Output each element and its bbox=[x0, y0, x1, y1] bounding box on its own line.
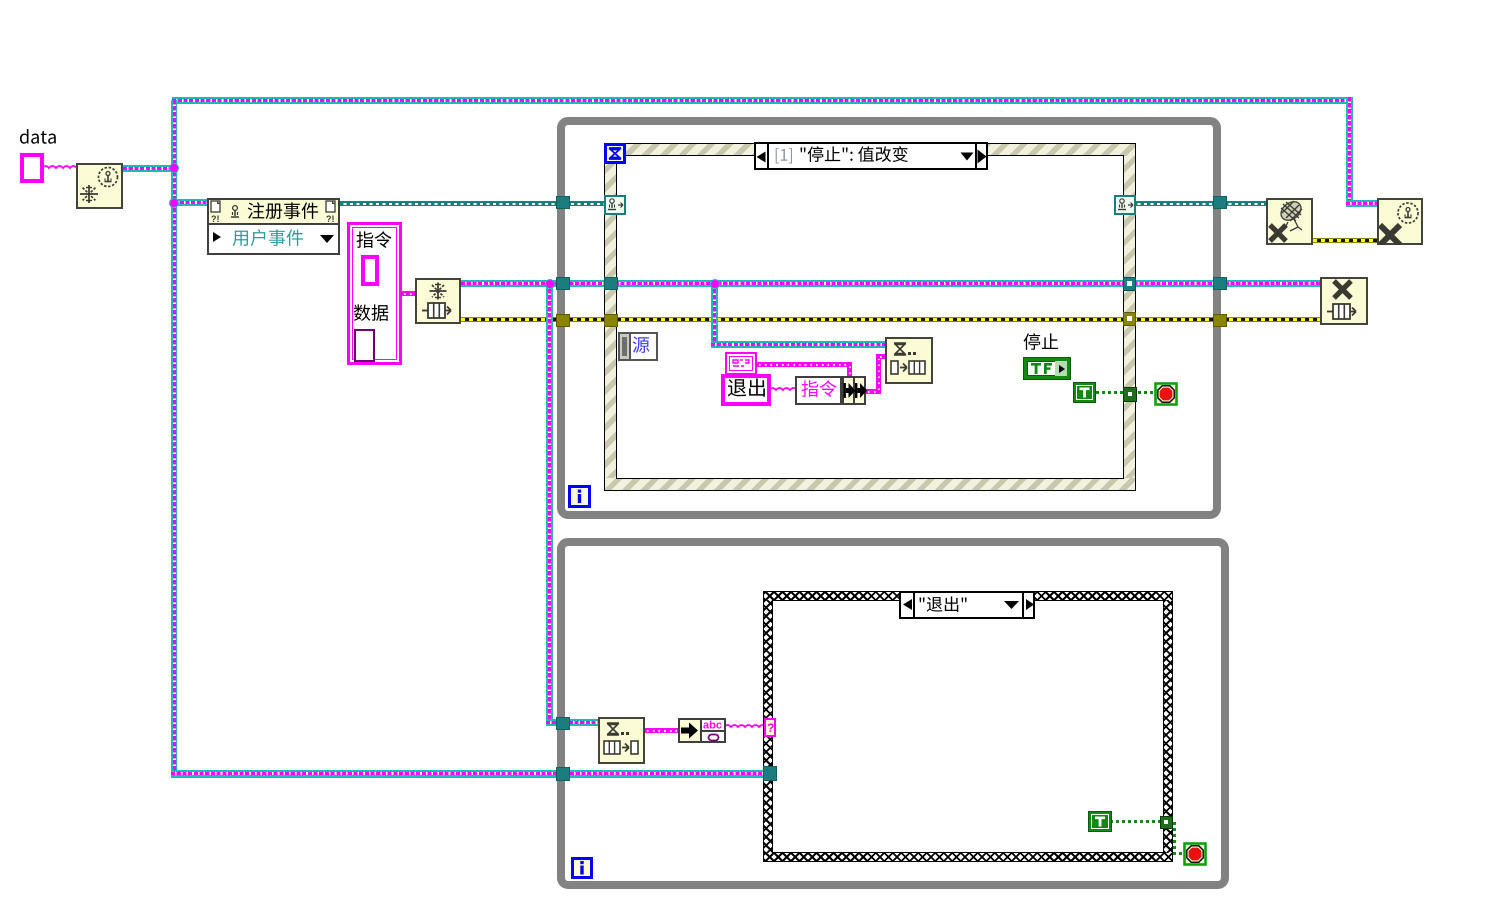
wire: Create User Event output bbox=[123, 165, 178, 172]
wire: True constant to loop condition (top) bbox=[1096, 391, 1158, 394]
loop1 right event-reg tunnel bbox=[1213, 196, 1227, 209]
inner terminal 数据 bbox=[354, 329, 375, 362]
bundle by name node 指令 bbox=[795, 376, 842, 405]
node: Release Queue bbox=[1320, 277, 1368, 325]
case structure border (checkered) bbox=[764, 592, 1172, 600]
loop iteration terminal [i] (top) bbox=[568, 485, 591, 508]
node: Destroy User Event bbox=[1377, 198, 1423, 245]
event structure right error pass-through tunnel bbox=[1123, 312, 1136, 326]
loop condition stop terminal (bottom) bbox=[1183, 842, 1207, 866]
wire: queue refnum drop to lower loop bbox=[546, 283, 553, 723]
loop1 left event-reg tunnel bbox=[556, 196, 570, 209]
wire: True constant to loop condition (bottom) bbox=[1110, 820, 1165, 823]
case right boolean tunnel bbox=[1160, 816, 1173, 829]
event structure left queue tunnel bbox=[604, 277, 618, 290]
wire: string to case selector bbox=[724, 724, 766, 730]
wire: event registration refnum (register to event structure) bbox=[340, 201, 608, 206]
register node event source row bbox=[212, 231, 222, 243]
True constant (bottom) bbox=[1088, 811, 1112, 832]
variant to data node bbox=[678, 718, 702, 743]
node: Create User Event bbox=[76, 163, 123, 209]
loop condition stop terminal (top) bbox=[1154, 382, 1178, 406]
node: Register For Events bbox=[207, 198, 340, 255]
loop iteration terminal [i] (bottom) bbox=[571, 857, 593, 879]
wire: error cluster main horizontal bbox=[461, 317, 1321, 322]
loop1 right error tunnel bbox=[1213, 314, 1227, 327]
wire: branch to Register For Events bbox=[174, 199, 208, 206]
wire: user event refnum top rail bbox=[172, 97, 1353, 104]
case selector terminal ? bbox=[764, 718, 776, 737]
wire: queue refnum drop to Enqueue inside event case bbox=[711, 283, 718, 345]
svg-text:?!: ?! bbox=[211, 214, 220, 224]
wire: bundle output to Enqueue element input bbox=[864, 389, 881, 394]
while loop 2 (bottom) border bbox=[557, 538, 1229, 889]
event structure left error tunnel bbox=[604, 314, 618, 327]
svg-text:?!: ?! bbox=[326, 214, 335, 224]
case structure selector header bbox=[899, 591, 1035, 619]
event structure timeout terminal bbox=[604, 143, 626, 164]
while loop 1 (top) border bbox=[557, 117, 1221, 519]
node junction queue wire branch bbox=[546, 280, 554, 288]
True constant (top) bbox=[1073, 382, 1096, 403]
event structure right boolean tunnel bbox=[1123, 387, 1137, 402]
event structure right queue pass-through tunnel bbox=[1123, 277, 1136, 291]
loop2 left queue tunnel bbox=[556, 717, 570, 730]
string control terminal 指令 bbox=[361, 255, 379, 286]
event data node 源 bbox=[618, 332, 658, 361]
data terminal bbox=[19, 128, 59, 150]
wire: user event refnum right drop to Destroy bbox=[1346, 97, 1353, 207]
cluster constant (指令/数据) bbox=[347, 222, 402, 365]
node junction on user event wire (to register) bbox=[170, 199, 178, 207]
wire: cluster constant to Obtain Queue bbox=[400, 291, 417, 296]
wire: event registration refnum (event structure to Unregister) bbox=[1134, 201, 1268, 206]
loop1 left queue tunnel bbox=[556, 277, 570, 290]
loop1 left error tunnel bbox=[556, 314, 570, 327]
node: Obtain Queue bbox=[415, 278, 461, 324]
node: Dequeue Element bbox=[598, 717, 645, 764]
svg-text:?: ? bbox=[767, 721, 774, 735]
wire: queue refnum main horizontal bbox=[461, 280, 1321, 287]
boolean terminal 停止 (TF) bbox=[1023, 333, 1061, 355]
event structure border (hatched) bbox=[605, 144, 1135, 156]
node: Unregister For Events bbox=[1266, 198, 1313, 245]
dynamic event terminal left bbox=[604, 195, 626, 215]
string constant 退出 bbox=[721, 374, 771, 406]
case left user-event tunnel bbox=[763, 766, 777, 781]
wire: user event refnum bottom rail into lower loop bbox=[171, 770, 771, 778]
dynamic event terminal right bbox=[1114, 195, 1136, 215]
wire: error cluster Unregister to Destroy bbox=[1313, 238, 1379, 243]
node junction queue wire inside event structure bbox=[711, 280, 719, 288]
event structure selector header bbox=[754, 142, 988, 170]
loop2 left user-event tunnel bbox=[556, 767, 570, 781]
loop1 right queue tunnel bbox=[1213, 277, 1227, 290]
wire: Dequeue element output bbox=[643, 728, 680, 733]
wire: data terminal to Create User Event bbox=[42, 165, 78, 171]
wire: string constant to bundle bbox=[769, 387, 797, 393]
variant constant icon bbox=[725, 352, 757, 375]
wire: user event refnum left vertical trunk bbox=[171, 100, 177, 777]
node: Enqueue Element bbox=[885, 337, 933, 384]
wire: variant constant to bundle node bbox=[755, 362, 850, 367]
node junction on user event wire (to top rail) bbox=[170, 164, 178, 172]
